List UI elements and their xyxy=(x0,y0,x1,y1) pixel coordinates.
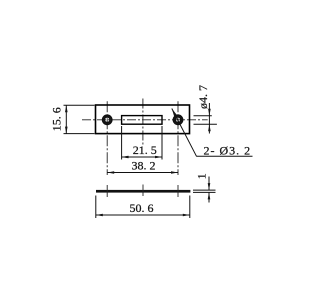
dimension 38.2 arrow left xyxy=(107,171,114,174)
left hole inner circle xyxy=(104,117,110,123)
dimension o4.7 extension line top xyxy=(194,115,212,117)
svg-text:ø4. 7: ø4. 7 xyxy=(196,85,210,109)
dimension 38.2 arrow right xyxy=(171,171,178,174)
dimension 1 arrow down xyxy=(208,183,211,190)
dimension 1 arrow up xyxy=(208,192,211,199)
dimension 50.6 extension line left xyxy=(95,196,97,219)
dimension 15.6 extension line bottom xyxy=(64,133,95,135)
dimension 15.6 arrow down xyxy=(65,127,68,134)
svg-text:38. 2: 38. 2 xyxy=(132,159,156,173)
svg-text:2- Ø3. 2: 2- Ø3. 2 xyxy=(204,144,252,158)
dimension 50.6 line xyxy=(96,214,190,216)
dimension 50.6 arrow right xyxy=(183,214,190,217)
left hole outer circle xyxy=(103,115,112,124)
right hole outer circle xyxy=(174,115,183,124)
side view bar xyxy=(96,190,190,193)
svg-text:21. 5: 21. 5 xyxy=(133,143,157,157)
leader arrow xyxy=(172,109,177,117)
left hole center line vertical xyxy=(106,101,108,175)
dimension 15.6 extension line top xyxy=(64,104,95,106)
leader landing line xyxy=(196,155,252,157)
svg-text:1: 1 xyxy=(195,173,209,179)
slot xyxy=(122,116,162,125)
dimension 15.6 arrow up xyxy=(65,105,68,112)
dimension 1 extension line bottom xyxy=(193,191,216,193)
dimension 21.5 extension line left xyxy=(121,126,123,160)
dimension 50.6 extension line right xyxy=(189,196,191,219)
plate outline (top view) xyxy=(96,105,190,134)
svg-text:50. 6: 50. 6 xyxy=(130,201,154,215)
dimension 21.5 arrow right xyxy=(155,156,162,159)
right hole inner circle xyxy=(175,117,181,123)
dimension 21.5 line xyxy=(122,156,162,158)
vertical center line (part middle) xyxy=(142,99,144,147)
dimension 1 line bottom segment xyxy=(208,192,210,202)
dimension o4.7 extension line bottom xyxy=(194,123,217,125)
horizontal center line (part axis) xyxy=(82,119,208,121)
leader line 2-O3.2 xyxy=(172,109,197,157)
dimension 50.6 arrow left xyxy=(96,214,103,217)
dimension 38.2 line xyxy=(107,172,178,174)
side view tick middle xyxy=(142,185,144,197)
dimension 1 extension line top xyxy=(193,189,216,191)
dimension 15.6 line xyxy=(65,105,67,133)
dimension 21.5 arrow left xyxy=(122,156,129,159)
dimension 21.5 extension line right xyxy=(161,126,163,160)
dimension o4.7 arrow up xyxy=(208,124,211,131)
side view tick left hole xyxy=(106,185,108,197)
side view tick right hole xyxy=(177,185,179,197)
dimension o4.7 line xyxy=(208,103,210,134)
dimension 1 line top segment xyxy=(208,177,210,191)
svg-text:15. 6: 15. 6 xyxy=(50,107,64,131)
dimension o4.7 arrow down xyxy=(208,109,211,116)
right hole center line vertical xyxy=(177,101,179,175)
